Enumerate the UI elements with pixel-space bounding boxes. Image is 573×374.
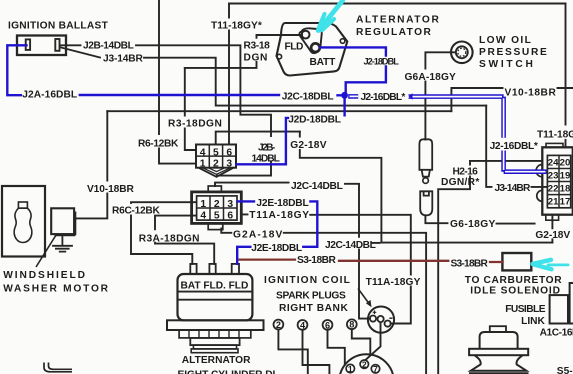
svg-text:7: 7 bbox=[373, 364, 378, 374]
wire R6C-12BK from connector 2 pin 1 to alternator BAT bbox=[131, 202, 196, 264]
svg-text:TO CARBURETOR: TO CARBURETOR bbox=[465, 275, 562, 286]
svg-text:2: 2 bbox=[214, 199, 220, 210]
wire junction to pin 5 / G2 tap bbox=[216, 132, 300, 145]
svg-text:T11-18GY: T11-18GY bbox=[537, 129, 573, 140]
wire R6-12BK from page top to connector pin 1 bbox=[159, 0, 196, 164]
wire V10-18BR long horizontal bbox=[107, 110, 451, 112]
svg-text:5: 5 bbox=[213, 147, 219, 158]
spark plug 4 bbox=[298, 320, 308, 330]
distributor cap bbox=[339, 354, 394, 374]
svg-text:PRESSURE: PRESSURE bbox=[479, 47, 547, 58]
partial component bottom left bbox=[44, 363, 72, 372]
svg-text:6: 6 bbox=[226, 147, 232, 158]
inline bullet connector upper half on G6A wire bbox=[419, 139, 432, 183]
svg-text:24: 24 bbox=[548, 157, 559, 168]
spark plug 2 bbox=[274, 320, 284, 330]
svg-text:R3-18DGN: R3-18DGN bbox=[168, 118, 222, 129]
leader arrow from T11A label to coil bbox=[358, 289, 369, 304]
svg-text:14DBL: 14DBL bbox=[252, 154, 281, 165]
alternator regulator U1 body bbox=[277, 23, 348, 76]
svg-text:18: 18 bbox=[560, 183, 571, 194]
svg-text:2: 2 bbox=[213, 159, 219, 170]
alternator flange bbox=[167, 320, 264, 330]
svg-text:S5-: S5- bbox=[557, 366, 573, 374]
svg-text:3: 3 bbox=[226, 159, 232, 170]
coil minus sign bbox=[389, 317, 392, 319]
svg-text:J2B-14DBL: J2B-14DBL bbox=[83, 40, 134, 51]
alternator FLD post 1 bbox=[209, 264, 215, 274]
svg-text:1: 1 bbox=[348, 364, 353, 374]
svg-text:3: 3 bbox=[227, 199, 233, 210]
svg-text:4: 4 bbox=[300, 320, 306, 330]
svg-text:J2E-18DBL: J2E-18DBL bbox=[256, 198, 309, 209]
svg-text:FLD: FLD bbox=[285, 42, 304, 53]
coil center terminal bbox=[378, 316, 384, 322]
svg-text:RIGHT BANK: RIGHT BANK bbox=[279, 303, 348, 314]
regulator BATT terminal bbox=[311, 43, 320, 52]
wire T11-18GY net: top horizontal and verticals bbox=[229, 3, 566, 5]
coil + terminal bbox=[370, 316, 376, 322]
wire S3-18BR (dark red) bbox=[240, 260, 503, 262]
svg-text:T11-18GY*: T11-18GY* bbox=[211, 21, 262, 32]
wire G6-18GY below bullet connector bbox=[425, 215, 534, 223]
wire spark plug 6 bbox=[328, 330, 345, 365]
distributor tower 1 bbox=[346, 364, 354, 372]
wire G6A-18GY from oil switch bbox=[425, 52, 455, 139]
wire J2E-18DBL connector 2 pin 3 to alternator FLD bbox=[237, 201, 317, 263]
svg-text:WASHER MOTOR: WASHER MOTOR bbox=[3, 283, 108, 294]
svg-text:J3-14BR: J3-14BR bbox=[103, 53, 143, 64]
connector C3 (right bulkhead, pins 24/20 23/19 22/18 21/17) bbox=[536, 143, 573, 220]
svg-text:19: 19 bbox=[560, 170, 571, 181]
svg-text:G6A-18GY: G6A-18GY bbox=[405, 72, 457, 83]
connector C2 pin numbers bbox=[200, 199, 233, 222]
wire G2A-18V from connector 2 down off page bbox=[221, 229, 426, 374]
wire R3-18DGN vertical to connector pin 4 bbox=[185, 68, 196, 150]
inline bullet connector lower half bbox=[420, 191, 432, 215]
svg-text:2: 2 bbox=[276, 320, 281, 330]
svg-text:5: 5 bbox=[214, 211, 220, 222]
svg-text:22: 22 bbox=[548, 183, 559, 194]
svg-text:J2-18DBL: J2-18DBL bbox=[364, 57, 400, 67]
svg-text:DGN/R*: DGN/R* bbox=[441, 177, 480, 188]
svg-text:J2E-18DBL: J2E-18DBL bbox=[251, 243, 302, 254]
wire spark plug 4 bbox=[303, 330, 330, 374]
svg-text:V10-18BR: V10-18BR bbox=[87, 184, 134, 195]
wire G2-18V net from pin5 tap to right connector pin 21 bbox=[300, 132, 553, 243]
cyan arrow pointing at idle solenoid bbox=[533, 260, 569, 270]
spark plug 8 bbox=[347, 319, 357, 329]
svg-text:S3-18BR: S3-18BR bbox=[451, 259, 489, 270]
spark plug 6 bbox=[323, 320, 333, 330]
wire J3-14BR vertical to pin 22 bbox=[486, 106, 546, 187]
svg-text:DGN: DGN bbox=[244, 52, 268, 63]
svg-text:G2A-18V: G2A-18V bbox=[233, 229, 283, 240]
svg-text:T11A-18GY: T11A-18GY bbox=[366, 277, 421, 288]
wire spark plug 2 bbox=[278, 329, 307, 374]
alternator fins bbox=[179, 330, 251, 338]
svg-text:J2A-16DBL: J2A-16DBL bbox=[22, 90, 77, 101]
coil plus sign bbox=[373, 311, 377, 315]
svg-text:WINDSHIELD: WINDSHIELD bbox=[3, 270, 85, 281]
bullet tip ball bbox=[423, 178, 429, 184]
regulator terminal plate bbox=[299, 28, 321, 53]
wire H2-16 DGN/R* to pin 24 bbox=[470, 160, 542, 162]
svg-text:LINK: LINK bbox=[521, 316, 545, 327]
svg-text:20: 20 bbox=[560, 157, 571, 168]
windshield washer reservoir bbox=[2, 186, 45, 257]
wire J2B-14DBL from ballast to connector pin 5 bbox=[61, 45, 272, 175]
svg-text:R6C-12BK: R6C-12BK bbox=[112, 205, 160, 216]
svg-text:V10-18BR: V10-18BR bbox=[505, 87, 557, 98]
svg-text:J2C-14DBL: J2C-14DBL bbox=[291, 181, 343, 192]
svg-text:1: 1 bbox=[200, 159, 206, 170]
wire J2A-16DBL from ballast bbox=[7, 45, 341, 95]
svg-text:G6-18GY: G6-18GY bbox=[450, 219, 496, 230]
alternator body bbox=[167, 264, 264, 353]
ignition ballast resistor bbox=[17, 36, 66, 56]
coil - terminal bbox=[385, 321, 391, 327]
carburetor idle solenoid box bbox=[502, 253, 531, 270]
svg-text:G2-18V: G2-18V bbox=[535, 230, 570, 241]
svg-text:ALTERNATOR: ALTERNATOR bbox=[182, 355, 251, 366]
svg-text:6: 6 bbox=[227, 211, 233, 222]
svg-text:FUSIBLE: FUSIBLE bbox=[505, 304, 546, 315]
ignition coil bbox=[368, 307, 394, 333]
svg-text:J2D-18DBL: J2D-18DBL bbox=[288, 114, 341, 125]
alternator pulley bbox=[190, 338, 239, 345]
starter relay bell (bottom right) bbox=[469, 326, 529, 373]
wire J2-16DBL* start tick bbox=[409, 93, 413, 100]
svg-text:R6-12BK: R6-12BK bbox=[138, 138, 179, 149]
connector C2 (lower, pins 1 2 3 / 4 5 6) bbox=[192, 186, 242, 230]
svg-text:LOW OIL: LOW OIL bbox=[479, 35, 531, 46]
ground symbol bbox=[52, 234, 73, 252]
junction dot J2C/J2D/J2-16 bbox=[341, 92, 348, 99]
svg-text:1: 1 bbox=[200, 199, 206, 210]
cyan arrow pointing at regulator bbox=[318, 1, 343, 31]
svg-text:A1C-16B: A1C-16B bbox=[540, 327, 573, 338]
svg-text:T11A-18GY: T11A-18GY bbox=[249, 210, 309, 221]
svg-text:J2B-: J2B- bbox=[258, 142, 276, 153]
wire J2-16DBL* double line bbox=[348, 96, 546, 171]
wire spark plug 8 bbox=[352, 329, 371, 353]
svg-text:8: 8 bbox=[349, 320, 354, 330]
svg-text:R3A-18DGN: R3A-18DGN bbox=[139, 233, 200, 244]
svg-text:4: 4 bbox=[200, 147, 206, 158]
svg-text:21: 21 bbox=[548, 196, 559, 207]
svg-text:IDLE SOLENOID: IDLE SOLENOID bbox=[470, 286, 560, 297]
svg-text:BATT: BATT bbox=[310, 57, 337, 68]
svg-text:IGNITION COIL: IGNITION COIL bbox=[264, 275, 350, 286]
svg-text:ALTERNATOR: ALTERNATOR bbox=[356, 15, 439, 26]
connector C1 (engine bulkhead upper, pins 4 5 6 / 1 2 3) bbox=[196, 145, 236, 177]
wire R3-18DGN from regulator FLD bbox=[185, 35, 302, 68]
connector C1 pin numbers bbox=[200, 147, 233, 169]
wire R3A-18DGN from connector 2 pin 4 to alternator FLD bbox=[155, 216, 214, 264]
svg-text:BAT FLD. FLD: BAT FLD. FLD bbox=[181, 280, 249, 291]
alternator BAT post bbox=[190, 264, 196, 274]
distributor tower 2 bbox=[360, 360, 368, 368]
regulator screw hole left bbox=[277, 54, 282, 59]
svg-text:J2C-18DBL: J2C-18DBL bbox=[282, 91, 334, 102]
svg-text:17: 17 bbox=[560, 196, 571, 207]
svg-text:6: 6 bbox=[325, 320, 330, 330]
wire V10-18BR to washer motor bbox=[75, 111, 108, 218]
regulator FLD terminal bbox=[302, 31, 310, 39]
svg-text:J2-16DBL*: J2-16DBL* bbox=[490, 141, 538, 152]
wire J2D-18DBL junction to connector pin 3 bbox=[236, 99, 344, 165]
connector C3 pin numbers bbox=[548, 157, 571, 207]
svg-text:REGULATOR: REGULATOR bbox=[356, 27, 431, 38]
svg-text:S3-18BR: S3-18BR bbox=[297, 255, 336, 266]
wire V10-18BR right side off page bbox=[451, 88, 573, 111]
svg-text:IGNITION BALLAST: IGNITION BALLAST bbox=[8, 20, 109, 31]
wire J2-18DBL from regulator BATT to junction bbox=[320, 47, 386, 91]
low oil pressure switch bbox=[451, 42, 473, 64]
leader line to washer motor bbox=[36, 234, 57, 268]
windshield washer motor bbox=[51, 208, 75, 251]
svg-text:J2-16DBL*: J2-16DBL* bbox=[361, 92, 406, 103]
svg-text:4: 4 bbox=[200, 211, 206, 222]
washer bottle bbox=[18, 202, 27, 208]
fusible link connector bbox=[550, 295, 568, 323]
svg-text:23: 23 bbox=[548, 170, 559, 181]
svg-text:SPARK PLUGS: SPARK PLUGS bbox=[276, 290, 346, 301]
wire coil high tension to distributor tower 2 bbox=[366, 323, 380, 360]
wire J2C-14DBL from connector 2 tab to coil + bbox=[215, 183, 370, 319]
wire J3-14BR from ballast bbox=[61, 48, 486, 106]
wire label dash J2C-14DBL lower bbox=[373, 242, 380, 244]
svg-text:EIGHT CYLINDER DI: EIGHT CYLINDER DI bbox=[178, 369, 276, 374]
blue wires bbox=[7, 45, 386, 263]
distributor tower 7 bbox=[371, 365, 379, 373]
svg-text:J3-14BR: J3-14BR bbox=[495, 183, 531, 194]
regulator screw hole right bbox=[340, 39, 345, 44]
svg-text:G2-18V: G2-18V bbox=[290, 140, 327, 151]
wire T11A-18GY from connector 2 to coil - bbox=[242, 214, 411, 323]
svg-text:R3-18: R3-18 bbox=[244, 41, 271, 52]
svg-text:J2C-14DBL: J2C-14DBL bbox=[325, 240, 376, 251]
alternator FLD post 2 bbox=[232, 264, 239, 274]
svg-text:2: 2 bbox=[362, 359, 367, 369]
